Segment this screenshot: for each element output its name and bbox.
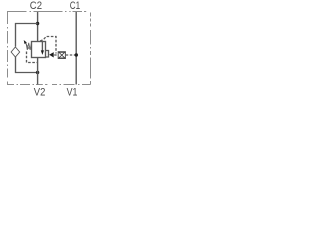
pilot arrow — [49, 52, 54, 57]
background — [0, 0, 98, 98]
valve body phantom border right — [90, 13, 92, 85]
valve body phantom border left — [7, 12, 9, 85]
valve body phantom border bottom — [7, 84, 91, 86]
relief valve envelope — [32, 42, 46, 58]
pilot piston — [46, 51, 49, 58]
valve body phantom border top — [7, 11, 86, 13]
wire check-valve branch lower — [16, 57, 38, 73]
svg-text:V1: V1 — [67, 87, 78, 99]
adjustment arrow — [25, 43, 29, 49]
relief valve flow arrow — [41, 42, 43, 51]
orifice restrictor — [58, 52, 65, 59]
spring drain pilot line — [27, 52, 38, 63]
wire check-valve branch upper — [16, 24, 38, 47]
pilot line orifice to V1 — [66, 54, 77, 56]
node V2 junction — [36, 71, 39, 74]
node C2 branch junction — [36, 22, 39, 25]
svg-text:C1: C1 — [70, 0, 80, 12]
sense pilot line from C2 — [40, 37, 56, 54]
svg-text:C2: C2 — [30, 0, 42, 12]
wire valve to V2 port — [37, 57, 39, 85]
node pilot tap on V1 line — [75, 53, 78, 56]
check valve — [11, 47, 20, 57]
spring — [26, 43, 32, 50]
wire C1-V1 through line — [75, 12, 77, 85]
wire C2 port down to valve — [37, 12, 39, 41]
svg-text:V2: V2 — [34, 87, 46, 99]
pilot line arrow to orifice — [54, 54, 58, 56]
